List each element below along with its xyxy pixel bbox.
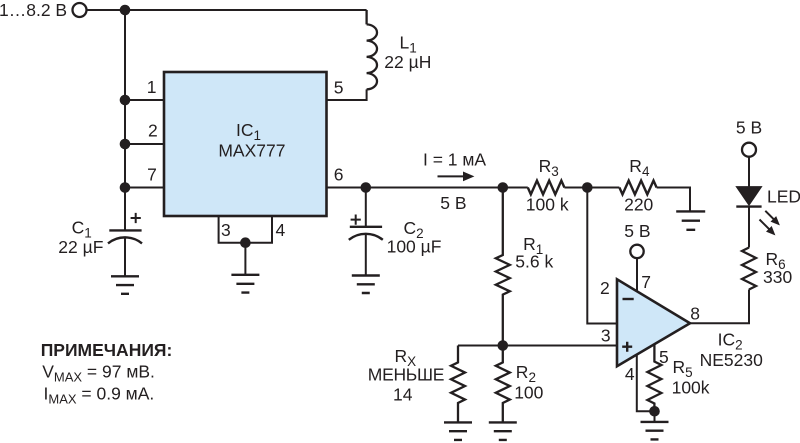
label pin 4 ic1	[276, 220, 286, 240]
LED arrows	[760, 211, 780, 235]
wire pin7 supply	[636, 258, 638, 291]
wire pin3 net	[458, 345, 617, 347]
ground IC1	[231, 275, 259, 293]
resistor R6	[742, 248, 756, 290]
svg-text:1…8.2 В: 1…8.2 В	[0, 0, 67, 20]
label pin 3 ic2	[601, 325, 611, 345]
svg-text:14: 14	[393, 385, 413, 405]
label IC2	[718, 329, 743, 352]
wire output pin8	[690, 290, 749, 324]
wire pins3 4	[219, 216, 272, 243]
label R3	[539, 156, 559, 179]
label notes title	[41, 340, 173, 360]
ground R4	[676, 211, 705, 229]
label pin 2 ic1	[148, 121, 158, 141]
label pin 3 ic1	[221, 220, 231, 240]
wire R3 to R4	[564, 187, 619, 189]
label R5 value	[672, 378, 710, 398]
LED D1	[736, 187, 761, 207]
wire pins3-4 to ground	[244, 243, 246, 275]
label pin 8 ic2	[690, 303, 700, 323]
label note Imax	[44, 384, 155, 407]
node pin2 tap	[582, 182, 593, 193]
svg-text:R5: R5	[673, 357, 693, 380]
svg-text:100 µF: 100 µF	[387, 236, 442, 256]
wire pin7 stub	[125, 187, 164, 189]
ground RX	[444, 422, 472, 440]
label C2	[404, 218, 424, 241]
svg-text:3: 3	[221, 220, 231, 240]
svg-text:22 µF: 22 µF	[58, 237, 103, 257]
svg-text:7: 7	[641, 272, 651, 292]
label MAX777	[218, 140, 285, 160]
terminal 5 В opamp supply	[630, 245, 643, 258]
svg-text:5 В: 5 В	[624, 221, 650, 241]
current arrow I	[438, 172, 475, 182]
svg-text:220: 220	[624, 195, 653, 215]
svg-text:5: 5	[334, 77, 344, 97]
svg-text:МЕНЬШЕ: МЕНЬШЕ	[368, 365, 444, 385]
node pins3-4 junction	[240, 237, 251, 248]
label R2 value	[514, 383, 543, 403]
wire pin2 net	[587, 188, 617, 324]
label NE5230	[700, 350, 764, 370]
label 5V opamp	[624, 221, 650, 241]
resistor R3	[528, 181, 565, 195]
ground R2	[489, 422, 517, 440]
label RX note	[368, 365, 444, 385]
ground C2	[352, 276, 380, 294]
label note Vmax	[42, 361, 155, 384]
svg-text:100 k: 100 k	[526, 195, 569, 215]
label R4 value	[624, 195, 653, 215]
svg-text:1: 1	[147, 77, 157, 97]
svg-text:LED: LED	[767, 187, 800, 207]
svg-text:4: 4	[276, 220, 286, 240]
label R1 value	[515, 252, 553, 272]
label L1	[400, 33, 417, 56]
svg-text:5: 5	[659, 347, 669, 367]
resistor R5	[647, 344, 661, 411]
label pin 2 ic2	[600, 278, 610, 298]
svg-text:IMAX = 0.9 мА.: IMAX = 0.9 мА.	[44, 384, 155, 407]
wire top rail	[87, 9, 367, 11]
label R3 value	[526, 195, 569, 215]
wire to R5 ground	[654, 411, 656, 422]
svg-text:22 µH: 22 µH	[384, 52, 431, 72]
svg-text:2: 2	[600, 278, 610, 298]
svg-text:MAX777: MAX777	[218, 140, 285, 160]
op-amp plus sign	[622, 342, 632, 352]
svg-text:R3: R3	[539, 156, 559, 179]
label R6 value	[763, 267, 792, 287]
label RX value	[393, 385, 413, 405]
label C1 value	[58, 237, 103, 257]
svg-text:6: 6	[334, 165, 344, 185]
svg-text:330: 330	[763, 267, 792, 287]
resistor RX	[451, 346, 465, 423]
svg-text:VMAX = 97 мВ.: VMAX = 97 мВ.	[42, 361, 155, 384]
label pin 4 ic2	[625, 364, 635, 384]
svg-text:5 В: 5 В	[440, 193, 466, 213]
node pin7 junction	[120, 182, 131, 193]
node pin3 junction	[498, 340, 509, 351]
svg-text:NE5230: NE5230	[700, 350, 764, 370]
label pin 1	[147, 77, 157, 97]
svg-text:4: 4	[625, 364, 635, 384]
inductor L1	[367, 10, 377, 89]
label RX	[395, 346, 417, 369]
label C2 plus	[351, 215, 361, 225]
wire pin2 stub	[125, 143, 164, 145]
op-amp IC2 triangle	[617, 279, 690, 366]
label IC1	[236, 120, 261, 143]
label pin 6 ic1	[334, 165, 344, 185]
svg-text:I = 1 мА: I = 1 мА	[423, 150, 486, 170]
wire pin1 stub	[125, 99, 164, 101]
resistor R4	[619, 181, 656, 195]
label pin 5 ic2	[659, 347, 669, 367]
node C2 tap	[361, 182, 372, 193]
terminal 5 В LED supply	[742, 143, 756, 157]
label 5V LED	[736, 118, 762, 138]
label R1	[523, 234, 543, 257]
input terminal 1...8.2 В	[73, 3, 87, 17]
resistor R1	[496, 188, 510, 346]
ground C1	[111, 276, 139, 294]
wire C2 to ground	[365, 234, 367, 276]
svg-text:100: 100	[514, 383, 543, 403]
svg-text:R2: R2	[516, 362, 536, 385]
node input junction	[120, 5, 131, 16]
label C1	[72, 218, 92, 241]
label R2	[516, 362, 536, 385]
svg-text:3: 3	[601, 325, 611, 345]
label 5V rail	[440, 193, 466, 213]
label C1 plus	[131, 213, 141, 223]
label pin 7 ic1	[147, 164, 157, 184]
wire R4 to ground	[657, 188, 690, 212]
label R5	[673, 357, 693, 380]
label C2 value	[387, 236, 442, 256]
svg-text:7: 7	[147, 164, 157, 184]
svg-text:ПРИМЕЧАНИЯ:: ПРИМЕЧАНИЯ:	[41, 340, 173, 360]
op-amp minus sign	[623, 298, 634, 300]
node pin1 junction	[120, 95, 131, 106]
wire LED to R6	[748, 207, 750, 248]
label L1 value	[384, 52, 431, 72]
ground R5	[641, 422, 669, 440]
resistor R2	[496, 346, 510, 423]
node pin2 junction	[120, 139, 131, 150]
label R6	[766, 249, 786, 272]
svg-text:R4: R4	[629, 156, 650, 179]
wire pin4	[637, 355, 655, 412]
svg-text:5.6 k: 5.6 k	[515, 252, 553, 272]
label LED	[767, 187, 800, 207]
wire C2 top	[365, 188, 367, 227]
label pin 5 ic1	[334, 77, 344, 97]
capacitor C2	[349, 227, 383, 240]
op-amp IC1 MAX777 body	[164, 72, 327, 216]
svg-text:8: 8	[690, 303, 700, 323]
capacitor C1	[108, 230, 142, 243]
node R1 tap	[498, 182, 509, 193]
wire left vertical bus	[124, 10, 126, 230]
wire pin5 to inductor	[327, 89, 367, 100]
label pin 7 ic2	[641, 272, 651, 292]
svg-text:5 В: 5 В	[736, 118, 762, 138]
wire pin6 rail to R3	[327, 187, 528, 189]
label current I	[423, 150, 486, 170]
wire LED anode	[748, 157, 750, 188]
svg-text:2: 2	[148, 121, 158, 141]
wire C1 to ground	[124, 238, 126, 277]
label R4	[629, 156, 650, 179]
node pin4-R5 junction	[649, 406, 660, 417]
label input voltage	[0, 0, 67, 20]
svg-text:100k: 100k	[672, 378, 710, 398]
